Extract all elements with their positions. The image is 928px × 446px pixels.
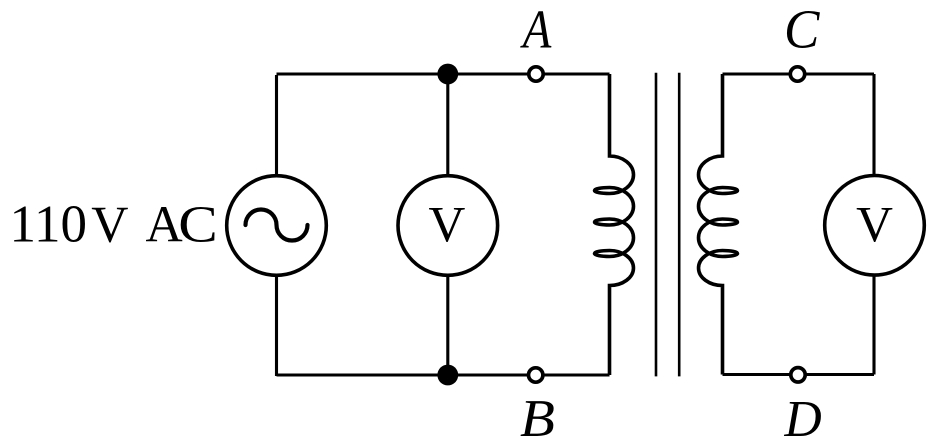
wire: secondary top wire [723,72,875,75]
terminal D open circle [791,368,805,382]
svg-text:V: V [856,197,893,253]
wire: voltmeter V2 rail bottom [872,274,875,375]
AC sine symbol [246,210,308,241]
inductor L1 primary winding with lead wires [595,74,634,375]
svg-text:B: B [520,389,555,446]
svg-text:V: V [428,197,465,253]
voltmeter U2 circle [825,176,925,276]
voltmeter U1 circle [398,176,498,276]
terminal C open circle [790,67,804,81]
AC source circle [227,176,327,276]
svg-text:C: C [178,197,218,254]
inductor L2 secondary winding with lead wires [699,74,738,375]
terminal B open circle [529,368,543,382]
wire: voltmeter V1 rail top [446,74,449,177]
transformer core line left [655,73,658,377]
transformer core line right [678,73,681,377]
wire: voltmeter V1 rail bottom [446,274,449,375]
svg-text:110: 110 [10,196,88,254]
wire: secondary bottom wire [723,373,875,376]
wire: primary bottom wire [277,373,610,376]
svg-text:D: D [783,391,821,446]
node junction dot top [437,64,458,85]
svg-text:V: V [91,197,128,254]
svg-text:A: A [520,0,552,60]
svg-text:C: C [784,0,820,60]
wire: primary top wire [277,72,610,75]
terminal A open circle [529,67,543,81]
node junction dot bottom [437,365,458,386]
svg-text:A: A [146,197,183,254]
wire: voltmeter V2 rail top [872,74,875,177]
wire: left rail bottom (source to bottom wire) [275,274,278,376]
wire: left rail top (source to top wire) [275,75,278,177]
